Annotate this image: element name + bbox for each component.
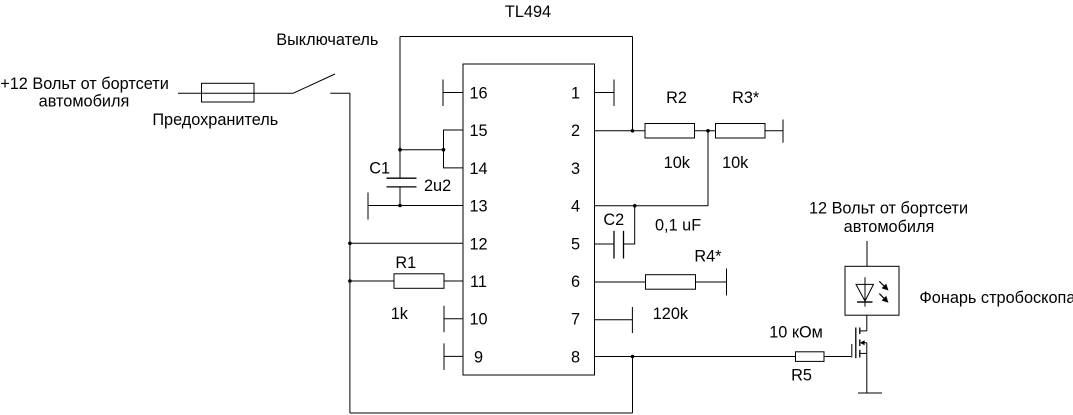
wire: left vertical to C1 top (399, 37, 401, 179)
wire: R3 right lead (765, 130, 783, 132)
label 0,1 uF (655, 216, 701, 234)
wire: bus to R1 (350, 280, 394, 282)
svg-text:Фонарь стробоскопа: Фонарь стробоскопа (919, 289, 1073, 307)
svg-text:0,1 uF: 0,1 uF (655, 216, 701, 234)
svg-text:7: 7 (571, 311, 580, 329)
label 10 kOm (769, 323, 823, 341)
wire: bottom return (350, 412, 633, 414)
label 10k R3 (722, 154, 749, 172)
svg-text:C2: C2 (603, 211, 624, 229)
svg-text:R2: R2 (666, 89, 687, 107)
LED D1 light arrow 2 (879, 294, 888, 303)
svg-text:C1: C1 (369, 159, 390, 177)
transistor Q1 gate electrode bar (855, 328, 857, 359)
svg-text:10k: 10k (722, 154, 749, 172)
wire: pin 5 stub (595, 243, 615, 245)
label R2 (666, 89, 687, 107)
label R4 (694, 248, 722, 266)
terminal bar pin 7 (631, 307, 633, 333)
pin numbers right (571, 85, 580, 367)
svg-text:5: 5 (571, 235, 580, 253)
label 12V lamp supply (809, 199, 968, 236)
wire: R2 to R3 (695, 130, 716, 132)
terminal bar pin 10 (443, 306, 445, 333)
node: pin8 junction (631, 355, 635, 359)
svg-text:15: 15 (469, 122, 487, 140)
node: pin13 C1 junction (398, 204, 402, 208)
label 2u2 (424, 177, 451, 195)
label C2 (603, 211, 624, 229)
svg-text:10k: 10k (664, 154, 691, 172)
node: pin2 junction (631, 129, 635, 133)
switch S1 right contact (330, 92, 350, 94)
svg-text:9: 9 (474, 348, 483, 366)
label 1k (391, 305, 409, 323)
label fuse (152, 111, 278, 129)
label TL494 (505, 3, 551, 21)
terminal bar pin 13 (367, 193, 369, 220)
wire: +12V lead through fuse to switch (178, 92, 293, 94)
capacitor C2 (614, 231, 624, 259)
wire: pin 6 to R4 (595, 281, 646, 283)
svg-text:10: 10 (469, 311, 487, 329)
label C1 (369, 159, 390, 177)
node: link right junction (442, 148, 446, 152)
wire: link to pins 15/14 bracket (400, 149, 444, 151)
svg-text:Предохранитель: Предохранитель (152, 111, 278, 129)
wire: pin 13 (368, 205, 463, 207)
svg-text:16: 16 (469, 85, 487, 103)
svg-text:10 кОм: 10 кОм (769, 323, 823, 341)
svg-text:4: 4 (571, 198, 580, 216)
resistor R3 (716, 124, 766, 139)
wire: C1 bottom to pin13 line (399, 187, 401, 206)
svg-text:2: 2 (571, 122, 580, 140)
LED D1 cathode bar (857, 301, 873, 303)
label R5 (791, 366, 812, 384)
LED D1 triangle (856, 284, 874, 301)
transistor Q1 body arrow (860, 340, 865, 345)
resistor R5 (796, 352, 825, 362)
svg-text:8: 8 (571, 348, 580, 366)
terminal bar pin 1 (613, 80, 615, 107)
transistor Q1 channel dashes (859, 328, 861, 358)
svg-text:автомобиля: автомобиля (844, 218, 935, 236)
svg-text:автомобиля: автомобиля (39, 93, 130, 111)
resistor R1 (394, 274, 444, 289)
wire: pin 7 stub (595, 319, 633, 321)
wire: pins 15-14 bracket (444, 130, 464, 168)
wire: lamp top feed (866, 241, 868, 266)
svg-text:TL494: TL494 (505, 3, 551, 21)
svg-text:6: 6 (571, 273, 580, 291)
node: R1 bus junction (348, 279, 352, 283)
svg-text:Выключатель: Выключатель (276, 31, 378, 49)
svg-text:11: 11 (470, 273, 487, 291)
svg-text:1k: 1k (391, 305, 409, 323)
wire: source down (866, 343, 868, 393)
wire: pin 1 stub (595, 92, 615, 94)
transistor Q1 body tap (863, 342, 867, 344)
svg-text:120k: 120k (653, 305, 689, 323)
capacitor C1 (387, 178, 417, 187)
svg-text:+12 Вольт от бортсети: +12 Вольт от бортсети (0, 75, 169, 93)
wire: pin 2 to R2 (595, 130, 646, 132)
wire: top supply from C1 branch to pin2 branch (400, 36, 633, 38)
wire: left bus from switch down (349, 93, 351, 413)
wire: R4 right lead (696, 281, 727, 283)
wire: drain up to lamp (866, 315, 868, 331)
wire: pin 16 stub (443, 92, 463, 94)
wire: top supply down to pin 2 (632, 37, 634, 131)
terminal bar pin 9 (443, 343, 445, 370)
switch S1 lever (293, 74, 335, 93)
transistor Q1 drain tap (860, 330, 867, 332)
wire: pin 10 stub (444, 318, 463, 320)
wire: pin 8 to R5 (595, 356, 796, 358)
wire: R1 to pin 11 (444, 280, 463, 282)
terminal bar R3 (782, 120, 784, 143)
terminal bar source (858, 392, 882, 394)
terminal bar R4 (726, 269, 728, 296)
label +12V supply (0, 75, 169, 111)
svg-text:12 Вольт от бортсети: 12 Вольт от бортсети (809, 199, 968, 217)
resistor R2 (645, 124, 695, 139)
wire: pin 9 stub (444, 355, 463, 357)
wire: C2 riser (624, 206, 635, 244)
wire: R2R3 junction down to pin 4 (707, 131, 709, 206)
node: pin4 C2 junction (633, 204, 637, 208)
svg-text:R3*: R3* (732, 89, 760, 107)
wire: R5 to gate (824, 356, 851, 358)
LED D1 anode lead (864, 277, 866, 306)
wire: pin 4 (595, 205, 709, 207)
label 10k R2 (664, 154, 691, 172)
svg-text:R4*: R4* (694, 248, 722, 266)
node: pin12 bus junction (348, 242, 352, 246)
wire: riser to pin 8 (632, 357, 634, 414)
label lamp (919, 289, 1073, 307)
svg-text:12: 12 (469, 235, 487, 253)
node: R2 R3 junction (706, 129, 710, 133)
label R3 (732, 89, 760, 107)
wire: pin 12 to bus (350, 242, 463, 244)
label 120k (653, 305, 689, 323)
terminal bar pin 16 (442, 80, 444, 107)
transistor Q1 source tap (860, 352, 867, 354)
label R1 (395, 254, 416, 272)
svg-text:2u2: 2u2 (424, 177, 451, 195)
svg-text:R5: R5 (791, 366, 812, 384)
transistor Q1 gate bar (851, 344, 853, 358)
pin numbers left (469, 85, 487, 367)
fuse F1 (202, 83, 255, 102)
svg-text:14: 14 (469, 160, 487, 178)
svg-text:1: 1 (571, 85, 580, 103)
svg-text:3: 3 (571, 160, 580, 178)
node: link left junction (398, 148, 402, 152)
svg-text:R1: R1 (395, 254, 416, 272)
LED D1 light arrow 1 (879, 281, 888, 290)
op-amp U1 TL494 body (463, 64, 595, 375)
resistor R4 (646, 275, 696, 290)
lamp box (845, 266, 899, 315)
label switch (276, 31, 378, 49)
svg-text:13: 13 (469, 198, 487, 216)
